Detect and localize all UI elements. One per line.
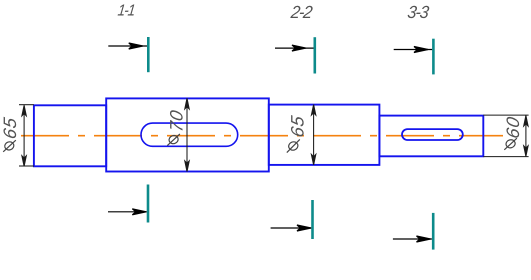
svg-text:3-3: 3-3 <box>406 3 430 23</box>
svg-text:70: 70 <box>167 108 187 133</box>
svg-text:65: 65 <box>288 113 308 138</box>
svg-text:1-1: 1-1 <box>117 3 136 20</box>
svg-text:60: 60 <box>503 115 523 140</box>
svg-text:65: 65 <box>0 115 20 140</box>
svg-text:2-2: 2-2 <box>289 3 314 23</box>
